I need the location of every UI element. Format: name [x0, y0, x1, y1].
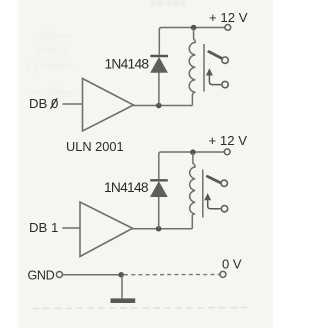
svg-text:+ 12 V: + 12 V [209, 133, 248, 148]
node DB0 input label [29, 96, 58, 111]
relay contact terminal 1b [222, 81, 228, 87]
wire diode2 cathode to +12V rail [159, 152, 225, 179]
wire GND to junction [62, 274, 119, 276]
op-amp U1 buffer ULN2001 [83, 79, 134, 132]
node junction coil2 top [190, 149, 196, 155]
svg-text:+ 12 V: + 12 V [209, 10, 248, 25]
inductor L1 relay coil [189, 28, 195, 106]
relay core line 2 [202, 170, 204, 218]
svg-text:DB 1: DB 1 [29, 220, 58, 235]
diode D2 1N4148 triangle [151, 182, 168, 197]
wire dashed 0V [124, 274, 220, 276]
relay actuating arrow 2 [204, 193, 211, 200]
svg-text:1N4148: 1N4148 [105, 57, 150, 72]
relay contact terminal 2b [221, 206, 227, 212]
faint bleed line [32, 308, 252, 309]
relay contact terminal 1a [222, 57, 228, 63]
wire U2 output to coil [133, 228, 193, 230]
wire diode1 cathode to +12V rail [159, 28, 225, 55]
node junction diode1/output [156, 103, 162, 109]
ground symbol bar [111, 298, 136, 303]
node junction ground [118, 272, 124, 278]
terminal 0V [220, 271, 226, 277]
relay contact terminal 2a [221, 180, 227, 186]
svg-text:ULN 2001: ULN 2001 [66, 139, 124, 154]
svg-text:0 V: 0 V [222, 256, 242, 271]
relay contact arm 1 [209, 52, 222, 59]
wire U1 output to coil [134, 105, 193, 107]
wire DB1 input [62, 227, 80, 229]
wire diode1 anode lead [158, 72, 160, 106]
svg-text:GND: GND [28, 268, 55, 282]
relay core line 1 [203, 44, 205, 92]
svg-text:1N4148: 1N4148 [104, 180, 149, 195]
diode D1 cathode bar [150, 55, 168, 57]
op-amp U2 buffer [80, 202, 133, 257]
wire ground stem [121, 275, 123, 299]
wire diode2 anode lead [158, 196, 160, 229]
relay contact arm 2 [207, 176, 220, 182]
node junction diode2/output [156, 226, 162, 232]
terminal +12V circuit2 [224, 149, 230, 155]
wire DB0 input [63, 103, 83, 105]
terminal +12V circuit1 [225, 25, 231, 31]
faint print bleed-through texture [150, 0, 186, 9]
node junction coil1 top [191, 25, 197, 31]
terminal GND [56, 272, 62, 278]
diode D2 cathode bar [150, 179, 168, 181]
relay actuating arrow 1 [206, 68, 213, 75]
inductor L2 relay coil [190, 153, 195, 229]
diode D1 1N4148 triangle [151, 58, 168, 73]
